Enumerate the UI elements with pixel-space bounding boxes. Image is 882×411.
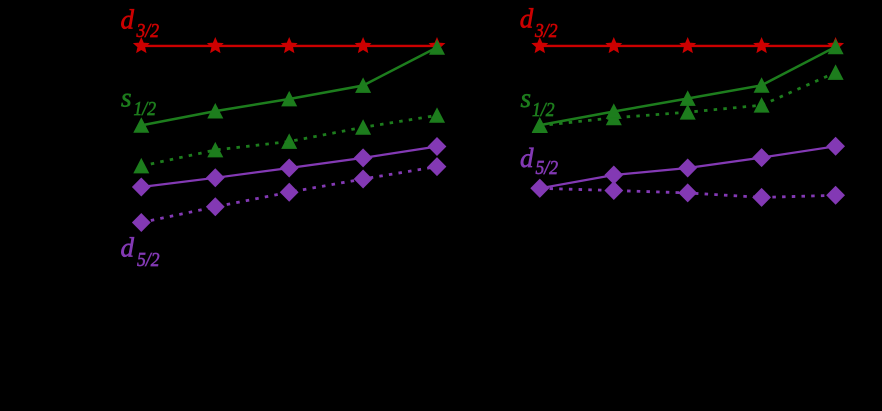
left d3/2 label <box>121 5 160 42</box>
svg-text:3/2: 3/2 <box>136 21 160 42</box>
right panel s1/2 solid line (green triangles) <box>533 40 843 132</box>
svg-text:5/2: 5/2 <box>137 250 160 271</box>
left d5/2 label <box>121 233 160 271</box>
right panel d3/2 line (red, stars) <box>533 38 843 52</box>
svg-text:3/2: 3/2 <box>534 21 558 42</box>
svg-text:1/2: 1/2 <box>134 99 157 120</box>
right d5/2 label <box>520 143 558 179</box>
left panel d3/2 line (red, stars) <box>134 38 444 52</box>
svg-text:s: s <box>521 83 532 113</box>
right panel d5/2 solid line (purple diamonds) <box>531 138 844 198</box>
left panel s1/2 solid line (green triangles) <box>134 40 444 132</box>
svg-text:s: s <box>121 82 132 112</box>
left panel s1/2 dashed line (green triangles) <box>134 108 444 172</box>
svg-text:1/2: 1/2 <box>532 100 555 121</box>
right s1/2 label <box>521 83 555 121</box>
svg-text:5/2: 5/2 <box>536 158 559 179</box>
svg-text:d: d <box>121 5 135 35</box>
right panel s1/2 dashed line (green triangles) <box>533 66 843 133</box>
right d3/2 label <box>520 3 558 42</box>
left s1/2 label <box>121 82 156 120</box>
svg-text:d: d <box>121 233 135 263</box>
svg-text:d: d <box>520 143 534 173</box>
svg-text:d: d <box>520 3 534 33</box>
right panel d5/2 dashed line (purple diamonds) <box>531 180 844 207</box>
left panel d5/2 dashed line (purple diamonds) <box>133 158 446 232</box>
left panel d5/2 solid line (purple diamonds) <box>133 138 446 196</box>
